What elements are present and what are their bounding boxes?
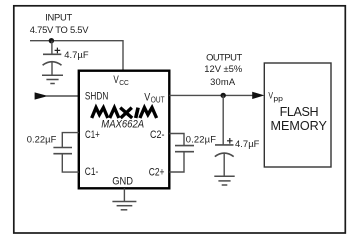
svg-text:12V ±5%: 12V ±5% (204, 63, 242, 74)
ground (GND pin) (112, 202, 136, 210)
svg-text:INPUT: INPUT (45, 12, 72, 23)
svg-text:C2-: C2- (150, 129, 165, 141)
SHDN input arrow (35, 93, 47, 99)
svg-text:C2+: C2+ (149, 166, 165, 178)
svg-text:SHDN: SHDN (85, 90, 108, 102)
capacitor C1 0.22uF (53, 148, 72, 154)
pin label VOUT (144, 92, 164, 105)
junction output node (221, 93, 226, 98)
svg-text:C1-: C1- (85, 166, 99, 178)
svg-text:4.75V TO 5.5V: 4.75V TO 5.5V (30, 24, 89, 35)
svg-text:0.22µF: 0.22µF (186, 134, 217, 145)
capacitor C_out 4.7uF (polarized) (215, 95, 234, 176)
IC U1 MAX662A box (79, 71, 170, 189)
capacitor C2 0.22uF (175, 146, 194, 152)
wire VOUT (169, 94, 253, 96)
ground (output cap) (214, 176, 234, 185)
wire input to VCC (30, 41, 123, 71)
pin label VCC (113, 74, 129, 87)
svg-text:CC: CC (119, 78, 129, 87)
svg-text:GND: GND (112, 175, 133, 187)
svg-text:OUT: OUT (151, 96, 165, 105)
wire GND pin (123, 188, 125, 201)
net label OUTPUT 12V +-5% 30mA (204, 51, 242, 86)
svg-text:MEMORY: MEMORY (271, 119, 328, 133)
wire C2- (169, 134, 184, 146)
svg-text:30mA: 30mA (210, 76, 236, 87)
svg-text:V: V (144, 92, 150, 104)
net label INPUT 4.75V TO 5.5V (30, 12, 89, 35)
ground (input cap) (42, 75, 63, 83)
svg-text:OUTPUT: OUTPUT (206, 51, 242, 62)
wire C1+ (62, 133, 79, 148)
wire C2+ (169, 152, 184, 172)
svg-text:pp: pp (273, 96, 283, 103)
output arrow (253, 92, 263, 98)
wire C1- (62, 154, 79, 172)
pin label VPP (268, 89, 283, 103)
svg-text:0.22µF: 0.22µF (27, 134, 57, 145)
svg-text:4.7µF: 4.7µF (235, 138, 260, 149)
wire SHDN (46, 95, 79, 97)
capacitor C_in 4.7uF (polarized) (43, 41, 62, 75)
block FLASH MEMORY (264, 63, 331, 167)
svg-text:MAX662A: MAX662A (101, 118, 144, 130)
svg-text:FLASH: FLASH (280, 105, 319, 119)
junction input node (49, 38, 54, 43)
svg-text:C1+: C1+ (85, 129, 100, 141)
svg-text:4.7µF: 4.7µF (64, 49, 89, 60)
MAXIM logo (92, 108, 157, 118)
